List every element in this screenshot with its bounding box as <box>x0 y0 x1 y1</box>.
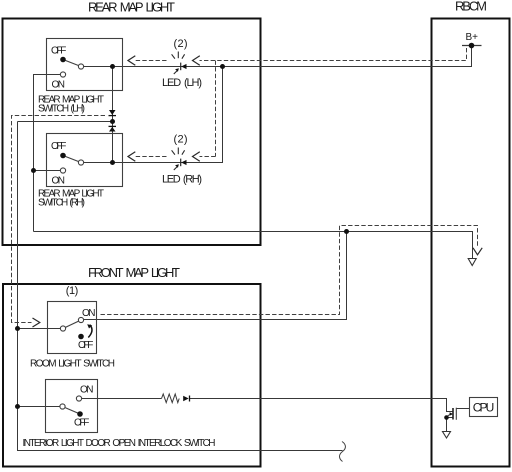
svg-text:INTERIOR LIGHT DOOR OPEN INTER: INTERIOR LIGHT DOOR OPEN INTERLOCK SWITC… <box>23 438 216 449</box>
svg-text:(2): (2) <box>174 38 188 50</box>
svg-text:ON: ON <box>82 308 96 319</box>
svg-text:RBCM: RBCM <box>455 0 487 14</box>
svg-text:ROOM LIGHT SWITCH: ROOM LIGHT SWITCH <box>30 359 115 370</box>
svg-text:SWITCH (LH): SWITCH (LH) <box>38 104 85 115</box>
svg-text:REAR MAP LIGHT: REAR MAP LIGHT <box>88 0 175 14</box>
svg-text:ON: ON <box>80 385 94 396</box>
svg-text:OFF: OFF <box>78 340 93 351</box>
svg-text:LED (RH): LED (RH) <box>162 174 202 186</box>
svg-text:CPU: CPU <box>473 401 495 415</box>
svg-text:(1): (1) <box>66 285 79 297</box>
svg-text:SWITCH (RH): SWITCH (RH) <box>38 198 85 209</box>
svg-text:LED (LH): LED (LH) <box>162 77 202 89</box>
svg-text:ON: ON <box>52 176 66 187</box>
svg-text:OFF: OFF <box>51 46 66 57</box>
svg-text:OFF: OFF <box>51 141 66 152</box>
svg-text:B+: B+ <box>466 32 479 43</box>
svg-text:ON: ON <box>52 80 66 91</box>
svg-text:OFF: OFF <box>74 418 89 429</box>
svg-text:FRONT MAP LIGHT: FRONT MAP LIGHT <box>88 265 180 280</box>
svg-text:(2): (2) <box>174 134 188 146</box>
